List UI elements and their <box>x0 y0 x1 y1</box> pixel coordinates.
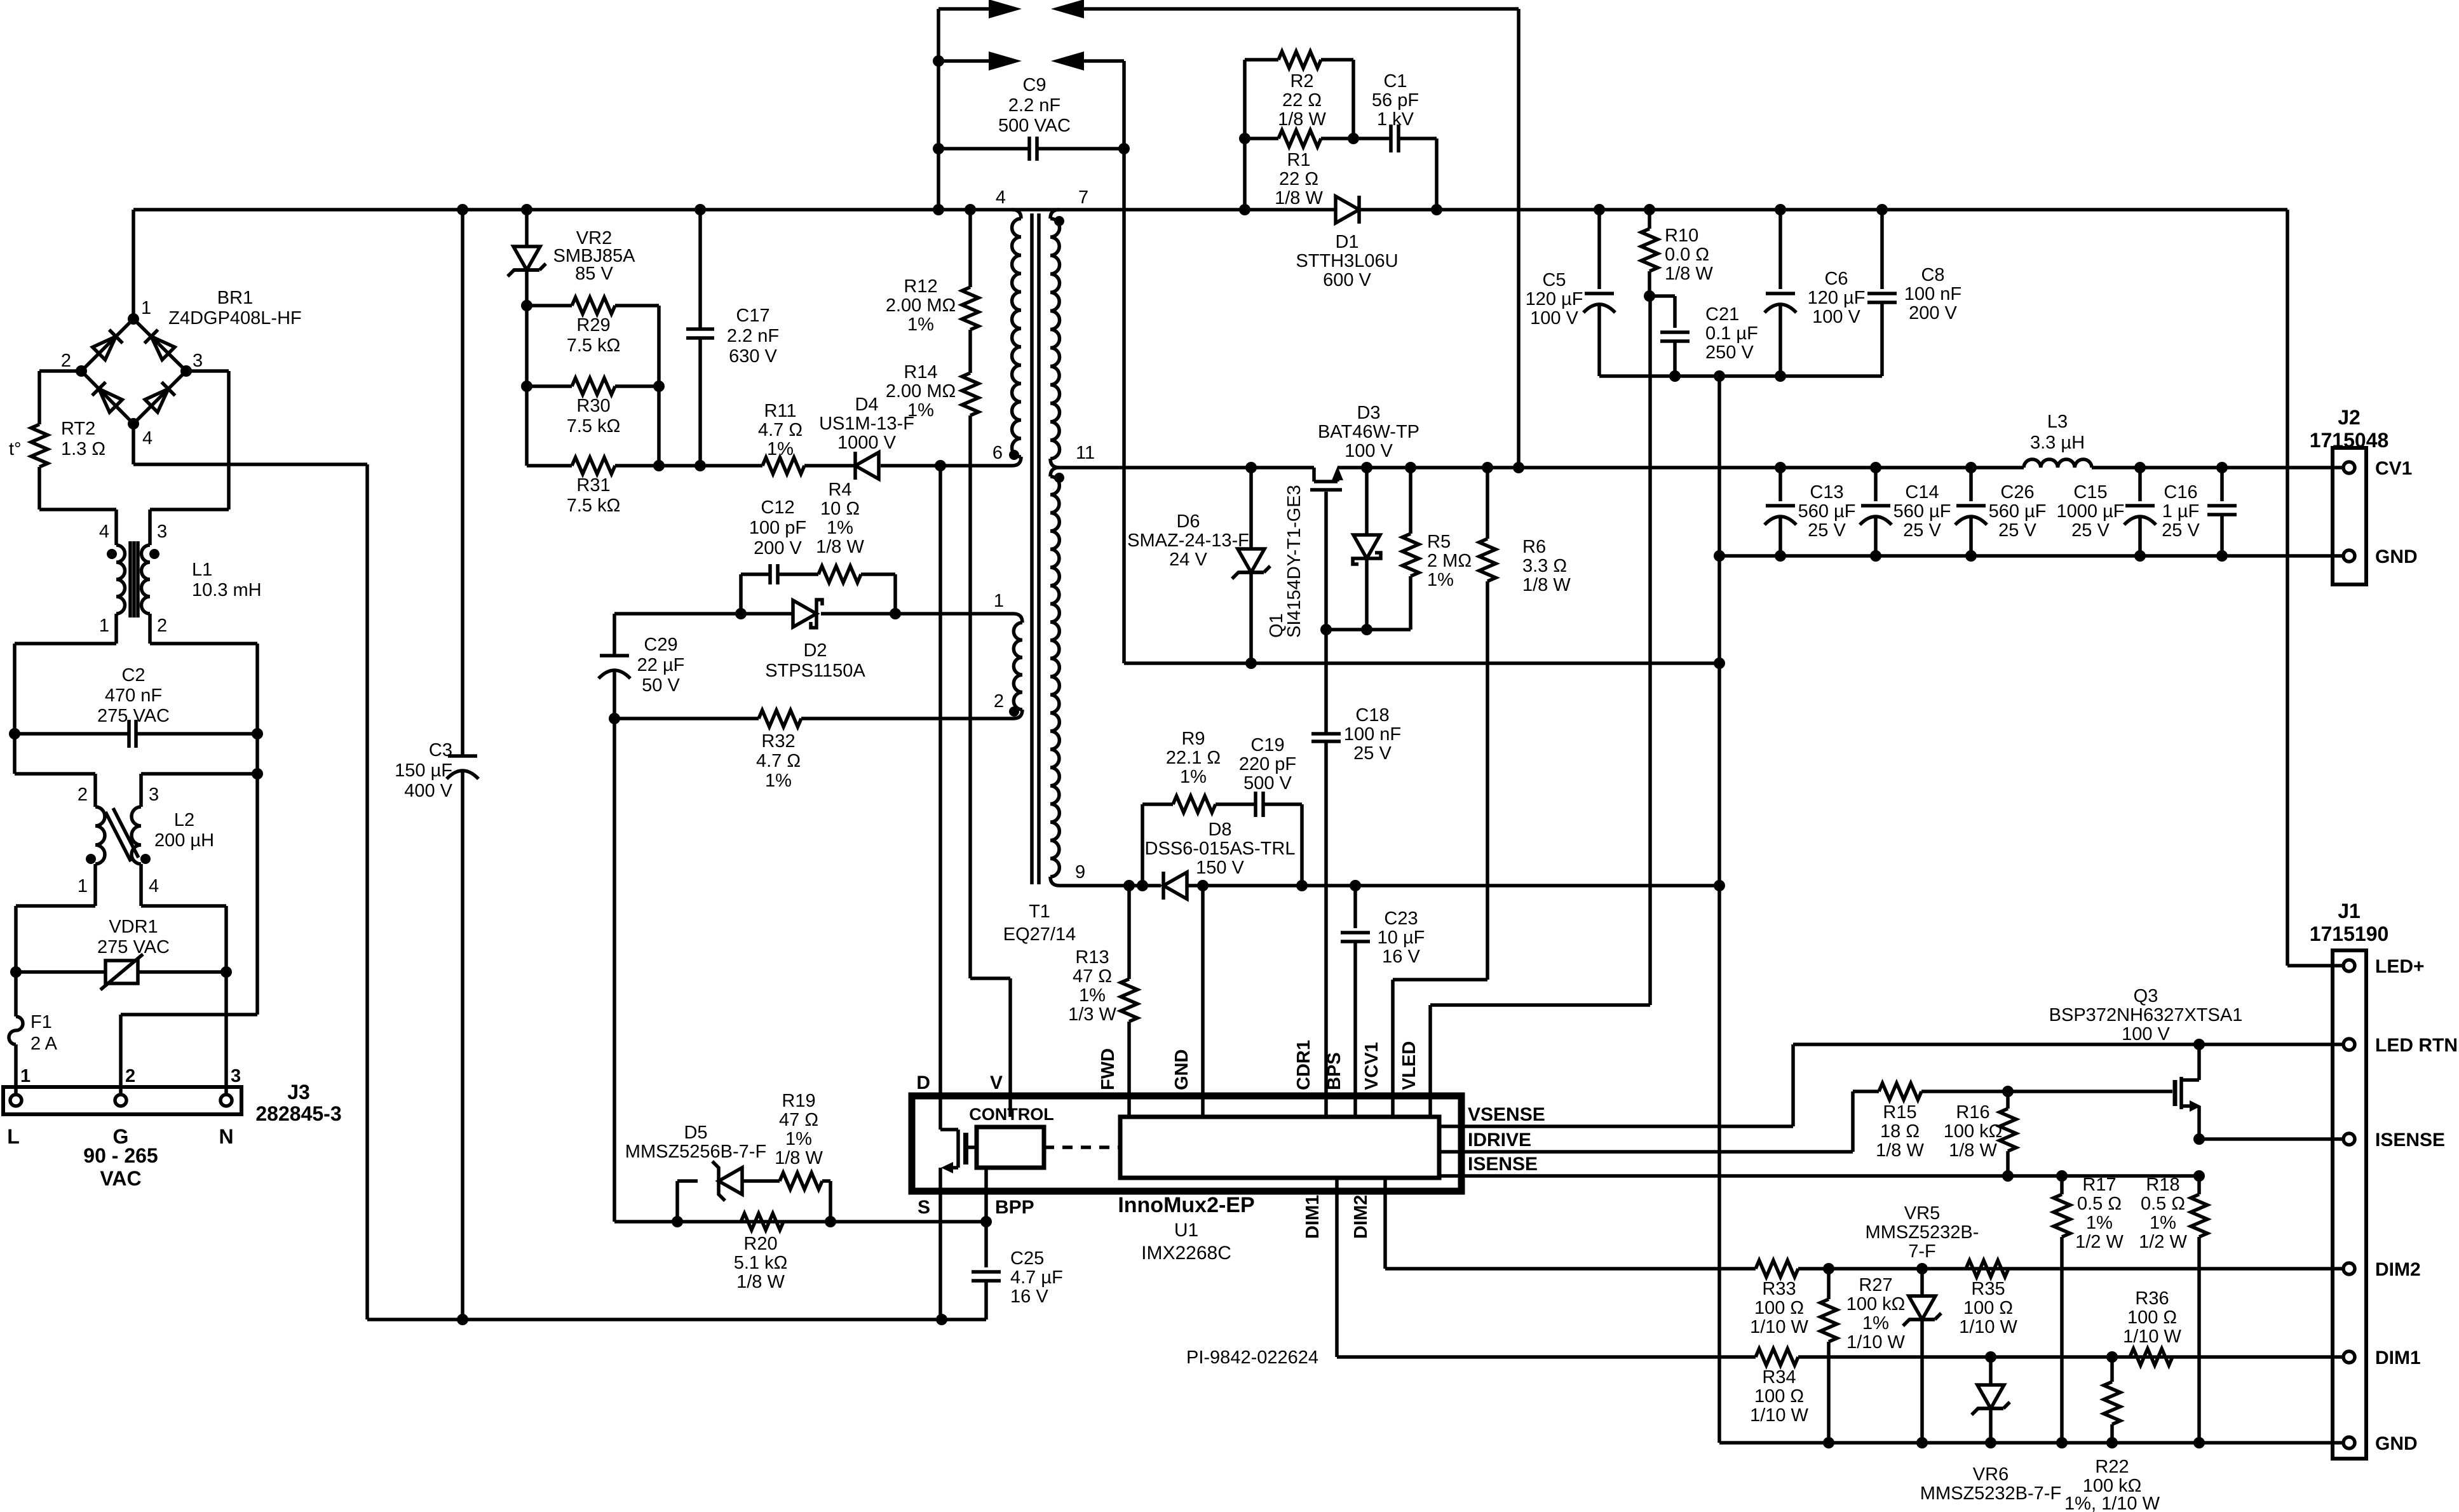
node T1 pin7 phase dot <box>1054 216 1064 226</box>
svg-text:2 A: 2 A <box>30 1034 58 1054</box>
wire L2 pin4 to N <box>141 906 226 972</box>
node T1 pin11b phase dot <box>1054 473 1064 483</box>
svg-text:2.00 MΩ: 2.00 MΩ <box>886 295 956 316</box>
svg-text:1%: 1% <box>1079 985 1106 1006</box>
svg-text:T1: T1 <box>1029 901 1050 922</box>
wire LED RTN line <box>1793 1039 2344 1050</box>
capacitor C16 <box>2207 468 2237 562</box>
diode D8 <box>1163 872 1187 900</box>
svg-text:250 V: 250 V <box>1705 342 1754 363</box>
svg-text:R34: R34 <box>1762 1367 1796 1387</box>
diode D4 <box>855 452 879 480</box>
wire flyback loop arrows row 1 <box>933 0 1524 473</box>
svg-text:1%: 1% <box>907 314 934 335</box>
label C12 <box>749 497 806 558</box>
label R4 <box>816 480 864 557</box>
svg-text:1 kV: 1 kV <box>1377 109 1414 130</box>
svg-text:BR1: BR1 <box>217 288 253 308</box>
resistor R20 <box>741 1213 783 1230</box>
svg-text:470 nF: 470 nF <box>105 685 162 706</box>
wire secondary rail pin11 to Q1 <box>1059 462 1493 473</box>
svg-text:C3: C3 <box>429 740 452 760</box>
svg-text:100 Ω: 100 Ω <box>2127 1307 2177 1328</box>
connector J2 <box>2333 448 2366 584</box>
label R22 <box>2064 1457 2160 1512</box>
svg-text:VDR1: VDR1 <box>109 917 158 937</box>
svg-text:25 V: 25 V <box>1808 520 1846 541</box>
label R30 <box>567 396 621 436</box>
wire D6 gnd line <box>1124 658 1725 669</box>
svg-text:R32: R32 <box>761 731 795 752</box>
zener VR6 <box>1972 1357 2010 1443</box>
svg-text:S: S <box>918 1197 930 1218</box>
svg-text:200 V: 200 V <box>754 538 802 558</box>
transistor Q3 <box>2175 1044 2201 1139</box>
svg-text:R22: R22 <box>2095 1457 2129 1477</box>
svg-text:0.5 Ω: 0.5 Ω <box>2141 1194 2185 1214</box>
svg-text:VAC: VAC <box>100 1167 141 1190</box>
svg-text:1/10 W: 1/10 W <box>1846 1332 1905 1353</box>
resistor R36 <box>2130 1349 2172 1365</box>
label C17 <box>727 306 779 367</box>
label Q3 <box>2049 986 2243 1044</box>
diode D1 <box>1336 196 1359 224</box>
svg-text:1/10 W: 1/10 W <box>1750 1405 1808 1426</box>
label PI number <box>1186 1347 1318 1368</box>
svg-text:1: 1 <box>20 1066 30 1086</box>
label R14 <box>886 362 956 421</box>
svg-text:1%: 1% <box>2086 1213 2113 1233</box>
label D1 <box>1296 232 1398 290</box>
label U1 <box>1118 1193 1254 1264</box>
svg-text:22 Ω: 22 Ω <box>1279 169 1318 189</box>
node T1 pin6 phase dot <box>1009 450 1019 460</box>
svg-text:J3: J3 <box>287 1081 310 1104</box>
capacitor C29 <box>599 614 630 1222</box>
svg-text:0.0 Ω: 0.0 Ω <box>1665 245 1709 265</box>
svg-text:R6: R6 <box>1522 537 1546 557</box>
wire BR1 pin2 to RT2 <box>39 371 81 424</box>
connector J3 <box>3 1087 241 1114</box>
svg-text:4.7 Ω: 4.7 Ω <box>758 420 803 440</box>
svg-text:100 Ω: 100 Ω <box>1754 1386 1804 1407</box>
capacitor C14 <box>1860 468 1892 562</box>
label Q1 <box>1266 485 1304 638</box>
svg-text:Q3: Q3 <box>2134 986 2158 1006</box>
svg-text:1/8 W: 1/8 W <box>816 537 864 557</box>
resistor R9 <box>1142 796 1216 886</box>
svg-text:400 V: 400 V <box>404 781 452 801</box>
svg-text:150 V: 150 V <box>1196 858 1244 878</box>
svg-text:22.1 Ω: 22.1 Ω <box>1166 748 1221 768</box>
svg-text:J1: J1 <box>2338 900 2361 922</box>
svg-text:1/2 W: 1/2 W <box>2075 1232 2124 1252</box>
label R31 <box>567 475 621 516</box>
resistor R13 <box>1121 886 1137 1117</box>
inductor L2 winding B <box>132 807 141 906</box>
svg-text:47 Ω: 47 Ω <box>1073 966 1112 987</box>
inductor L1 winding B <box>142 545 151 644</box>
label C23 <box>1378 908 1425 967</box>
svg-text:120 µF: 120 µF <box>1808 288 1866 308</box>
wire secondary rail Q1 to output caps <box>1338 462 2024 473</box>
label VDR1 <box>97 917 170 957</box>
svg-text:4: 4 <box>149 876 159 896</box>
svg-text:25 V: 25 V <box>1998 520 2036 541</box>
label U1 dim pins <box>1303 1195 1371 1239</box>
zener D5 <box>677 1161 780 1222</box>
node T1 pin2 phase dot <box>1009 706 1019 717</box>
svg-text:56 pF: 56 pF <box>1372 90 1419 111</box>
diode D3 <box>1353 468 1381 635</box>
svg-text:R9: R9 <box>1181 729 1205 749</box>
transformer T1 primary winding <box>1012 210 1021 466</box>
svg-text:3: 3 <box>231 1066 241 1086</box>
svg-text:C6: C6 <box>1824 269 1848 289</box>
svg-text:3.3 µH: 3.3 µH <box>2030 433 2085 453</box>
transformer T1 bias winding <box>1013 614 1022 719</box>
bridge rectifier BR1 <box>76 313 192 429</box>
label C2 <box>97 665 170 726</box>
svg-text:D1: D1 <box>1335 232 1358 252</box>
label R27 <box>1846 1275 1906 1353</box>
svg-text:R35: R35 <box>1971 1279 2005 1299</box>
transformer T1 secondary winding lower <box>1050 468 1059 886</box>
wire primary return (pin 6 line) <box>700 460 1012 471</box>
label R5 <box>1427 532 1472 590</box>
svg-text:SI4154DY-T1-GE3: SI4154DY-T1-GE3 <box>1284 485 1304 638</box>
wire bias line pin9 <box>1059 880 1725 891</box>
svg-text:10 µF: 10 µF <box>1378 928 1425 948</box>
svg-text:R13: R13 <box>1075 947 1109 968</box>
svg-text:R27: R27 <box>1859 1275 1892 1295</box>
svg-text:2.2 nF: 2.2 nF <box>1008 95 1060 116</box>
svg-text:2: 2 <box>157 616 167 636</box>
svg-text:1/8 W: 1/8 W <box>775 1148 823 1168</box>
transformer T1 core <box>1032 213 1039 884</box>
svg-text:J2: J2 <box>2338 406 2361 429</box>
label D3 <box>1318 403 1419 461</box>
svg-text:VSENSE: VSENSE <box>1468 1104 1545 1125</box>
label T1 <box>1003 901 1076 945</box>
svg-text:2: 2 <box>994 691 1004 712</box>
label R2 <box>1278 71 1326 130</box>
svg-text:16 V: 16 V <box>1010 1286 1048 1307</box>
svg-text:STTH3L06U: STTH3L06U <box>1296 251 1398 271</box>
IC U1 CONTROL box <box>977 1127 1044 1168</box>
svg-text:C19: C19 <box>1250 735 1284 755</box>
svg-text:1/8 W: 1/8 W <box>1278 109 1326 130</box>
inductor L1 core <box>130 541 138 618</box>
capacitor C26 <box>1955 468 1987 562</box>
svg-text:7.5 kΩ: 7.5 kΩ <box>567 335 621 356</box>
svg-text:D3: D3 <box>1357 403 1380 423</box>
svg-text:C9: C9 <box>1022 75 1046 95</box>
resistor R35 <box>1966 1260 2009 1277</box>
resistor R27 <box>1820 1269 1837 1443</box>
label R10 <box>1665 226 1713 284</box>
capacitor C17 <box>686 210 714 471</box>
svg-text:0.1 µF: 0.1 µF <box>1705 323 1758 344</box>
svg-text:100 V: 100 V <box>1812 307 1860 327</box>
svg-text:6: 6 <box>992 443 1003 463</box>
svg-text:DIM2: DIM2 <box>1351 1195 1371 1239</box>
wire ISENSE pin line <box>2193 1133 2344 1145</box>
svg-text:100 V: 100 V <box>1345 441 1393 461</box>
label U1 top pins <box>1098 1040 1419 1090</box>
svg-text:4.7 Ω: 4.7 Ω <box>756 751 801 771</box>
inductor L2 core <box>105 808 139 861</box>
transistor U1 internal MOSFET <box>940 1130 977 1320</box>
wire DIM1 net <box>1798 1351 2344 1363</box>
svg-text:U1: U1 <box>1174 1220 1198 1241</box>
svg-text:1/8 W: 1/8 W <box>1665 264 1713 284</box>
svg-text:STPS1150A: STPS1150A <box>765 661 865 681</box>
svg-text:R16: R16 <box>1956 1102 1989 1123</box>
label CONTROL <box>969 1105 1053 1124</box>
capacitor C3 <box>447 210 478 1325</box>
svg-text:2: 2 <box>125 1066 135 1086</box>
label J1 <box>2310 900 2458 1454</box>
svg-text:MMSZ5232B-: MMSZ5232B- <box>1866 1222 1979 1243</box>
label R32 <box>756 731 801 791</box>
svg-text:1 µF: 1 µF <box>2162 501 2200 522</box>
label C8 <box>1904 265 1961 323</box>
svg-text:C25: C25 <box>1010 1248 1044 1269</box>
wire output ground rail <box>1719 554 2344 558</box>
svg-text:2.2 nF: 2.2 nF <box>727 326 779 346</box>
wire source bottom rail <box>367 1314 986 1325</box>
resistor R18 <box>2191 1176 2207 1443</box>
svg-text:85 V: 85 V <box>575 264 613 284</box>
svg-text:2: 2 <box>78 785 88 805</box>
svg-text:3: 3 <box>157 522 167 542</box>
svg-text:R15: R15 <box>1883 1102 1916 1123</box>
wire L2 pin1 to fuse <box>16 906 95 972</box>
svg-text:Z4DGP408L-HF: Z4DGP408L-HF <box>168 308 302 328</box>
svg-text:C8: C8 <box>1921 265 1944 285</box>
label R35 <box>1959 1279 2017 1337</box>
varistor VDR1 <box>10 954 232 990</box>
resistor R22 <box>2104 1357 2120 1443</box>
wire VLED to R10 node <box>1430 296 1650 1117</box>
zener VR5 <box>1903 1269 1941 1443</box>
svg-text:25 V: 25 V <box>1353 743 1392 764</box>
capacitor C25 <box>972 1222 1001 1320</box>
label D8 <box>1145 820 1296 878</box>
svg-text:560 µF: 560 µF <box>1893 501 1951 522</box>
label J2 <box>2310 406 2418 567</box>
svg-text:DIM2: DIM2 <box>2375 1259 2421 1280</box>
wire R6 to VCV1 pin <box>1393 980 1487 1117</box>
svg-text:t°: t° <box>9 439 22 459</box>
svg-text:10 Ω: 10 Ω <box>820 499 860 519</box>
svg-text:1000 V: 1000 V <box>837 433 897 453</box>
svg-text:R5: R5 <box>1427 532 1451 552</box>
zener VR2 <box>508 210 546 311</box>
resistor R10 <box>1641 210 1658 302</box>
wire bus to BR1 pin 1 <box>132 210 135 319</box>
resistor R6 <box>1479 468 1496 980</box>
capacitor C6 <box>1765 210 1796 382</box>
svg-text:C12: C12 <box>761 497 794 518</box>
svg-text:R14: R14 <box>904 362 937 382</box>
svg-text:275 VAC: 275 VAC <box>97 706 170 726</box>
wire BPP line <box>614 1216 986 1227</box>
capacitor C21 <box>1649 296 1690 382</box>
svg-text:R2: R2 <box>1290 71 1313 91</box>
capacitor C18 <box>1311 630 1341 1117</box>
svg-text:4.7 µF: 4.7 µF <box>1010 1267 1063 1288</box>
svg-text:100 nF: 100 nF <box>1904 284 1961 304</box>
svg-text:275 VAC: 275 VAC <box>97 937 170 957</box>
capacitor C5 <box>1583 210 1615 376</box>
svg-text:25 V: 25 V <box>2162 520 2200 541</box>
wire BPP pin <box>980 1168 992 1227</box>
wire C2 left to L2 pin2 <box>15 734 95 807</box>
wire LED+ rail <box>2287 210 2344 966</box>
svg-text:560 µF: 560 µF <box>1989 501 2047 522</box>
svg-text:50 V: 50 V <box>642 675 680 696</box>
svg-text:100 pF: 100 pF <box>749 518 806 538</box>
svg-text:R10: R10 <box>1665 226 1698 246</box>
label R13 <box>1068 947 1116 1025</box>
svg-text:R31: R31 <box>576 475 610 496</box>
svg-text:4: 4 <box>142 428 152 449</box>
svg-text:24 V: 24 V <box>1169 550 1207 570</box>
wire BR1 pin3 to L1 pin3 <box>150 371 229 545</box>
label C14 <box>1893 482 1951 541</box>
svg-text:VLED: VLED <box>1399 1041 1419 1090</box>
svg-text:3: 3 <box>193 351 203 371</box>
resistor R33 <box>1756 1260 1798 1277</box>
capacitor C13 <box>1765 468 1796 562</box>
svg-text:L1: L1 <box>192 560 212 580</box>
svg-text:R33: R33 <box>1762 1279 1796 1299</box>
label R20 <box>734 1234 788 1292</box>
svg-text:3: 3 <box>149 785 159 805</box>
wire flyback loop arrows row 2 <box>938 51 1124 663</box>
svg-text:VR5: VR5 <box>1904 1203 1940 1224</box>
wire L1 pin1 down <box>15 644 116 734</box>
zener D6 <box>1232 468 1270 669</box>
svg-text:C14: C14 <box>1905 482 1939 503</box>
svg-text:100 Ω: 100 Ω <box>1963 1298 2013 1318</box>
svg-text:1/8 W: 1/8 W <box>1275 188 1323 208</box>
svg-text:100 nF: 100 nF <box>1344 724 1401 745</box>
svg-text:200 V: 200 V <box>1909 303 1957 323</box>
svg-text:500 VAC: 500 VAC <box>998 116 1071 136</box>
svg-text:BPS: BPS <box>1324 1052 1345 1090</box>
resistor R5 <box>1320 468 1419 635</box>
svg-text:100 Ω: 100 Ω <box>1754 1298 1804 1318</box>
resistor R29 <box>527 297 665 392</box>
wire IDRIVE <box>1439 1091 1853 1152</box>
svg-text:DIM1: DIM1 <box>1303 1195 1323 1239</box>
svg-text:500 V: 500 V <box>1243 773 1292 793</box>
svg-text:C5: C5 <box>1542 270 1566 290</box>
svg-text:GND: GND <box>2375 1433 2418 1454</box>
svg-text:R1: R1 <box>1287 150 1310 170</box>
wire GND pin <box>1201 886 1205 1117</box>
label L1 <box>99 522 262 636</box>
svg-text:1/2 W: 1/2 W <box>2139 1232 2187 1252</box>
svg-text:R36: R36 <box>2135 1288 2169 1309</box>
resistor R2 <box>1245 51 1359 210</box>
svg-text:SMAZ-24-13-F: SMAZ-24-13-F <box>1127 530 1249 551</box>
inductor L2 winding A <box>95 807 105 906</box>
label C29 <box>637 635 685 696</box>
svg-text:1/10 W: 1/10 W <box>1750 1317 1808 1337</box>
wire control dashed link <box>1044 1145 1120 1149</box>
svg-text:1/8 W: 1/8 W <box>736 1272 785 1292</box>
label L2 <box>78 785 214 896</box>
connector J1 <box>2333 950 2366 1459</box>
svg-text:2 MΩ: 2 MΩ <box>1427 551 1472 571</box>
label R12 <box>886 276 956 335</box>
label J3 <box>7 1066 341 1190</box>
svg-text:1%: 1% <box>765 771 792 791</box>
svg-text:D6: D6 <box>1176 511 1200 532</box>
svg-text:N: N <box>219 1125 233 1148</box>
svg-text:D8: D8 <box>1208 820 1231 840</box>
label R16 <box>1944 1102 2003 1161</box>
svg-text:BAT46W-TP: BAT46W-TP <box>1318 422 1419 442</box>
label R18 <box>2139 1175 2187 1252</box>
svg-text:1: 1 <box>994 591 1004 611</box>
svg-text:MMSZ5232B-7-F: MMSZ5232B-7-F <box>1920 1483 2061 1504</box>
svg-text:1: 1 <box>99 616 109 636</box>
label C18 <box>1344 705 1401 764</box>
label U1 right pins <box>1468 1104 1545 1175</box>
svg-text:1%: 1% <box>907 400 934 421</box>
resistor R14 <box>962 330 979 415</box>
svg-text:600 V: 600 V <box>1323 270 1371 290</box>
svg-text:630 V: 630 V <box>729 346 777 367</box>
wire DIM2 net <box>1798 1263 2344 1274</box>
svg-text:C17: C17 <box>736 306 769 326</box>
svg-text:1%: 1% <box>1180 767 1207 787</box>
IC U1 inner box <box>1120 1117 1439 1178</box>
svg-text:R11: R11 <box>764 401 796 421</box>
svg-text:BPP: BPP <box>995 1197 1034 1218</box>
svg-text:1/8 W: 1/8 W <box>1949 1140 1997 1161</box>
svg-text:1/8 W: 1/8 W <box>1522 575 1571 595</box>
transistor Q1 <box>1310 466 1343 630</box>
wire secondary rail L3 to J2 CV1 <box>2092 462 2344 473</box>
label C25 <box>1010 1248 1063 1307</box>
svg-text:1.3 Ω: 1.3 Ω <box>61 439 105 459</box>
label RT2 <box>9 419 105 459</box>
svg-text:560 µF: 560 µF <box>1798 501 1856 522</box>
label C9 <box>998 75 1071 136</box>
svg-text:1: 1 <box>78 876 88 896</box>
node L1 phase dots <box>107 549 159 559</box>
svg-text:IMX2268C: IMX2268C <box>1141 1243 1231 1264</box>
svg-text:C2: C2 <box>121 665 145 685</box>
wire DIM2 pin <box>1385 1178 1756 1269</box>
wire R14 to V pin <box>970 415 1010 1117</box>
svg-text:V: V <box>990 1072 1003 1093</box>
svg-text:22 µF: 22 µF <box>637 655 685 675</box>
label C16 <box>2162 482 2200 541</box>
svg-text:IDRIVE: IDRIVE <box>1468 1130 1531 1151</box>
label C19 <box>1239 735 1296 793</box>
svg-text:GND: GND <box>2375 546 2418 567</box>
svg-text:CDR1: CDR1 <box>1294 1040 1314 1090</box>
svg-text:C26: C26 <box>2000 482 2034 503</box>
svg-text:1%: 1% <box>2150 1213 2176 1233</box>
